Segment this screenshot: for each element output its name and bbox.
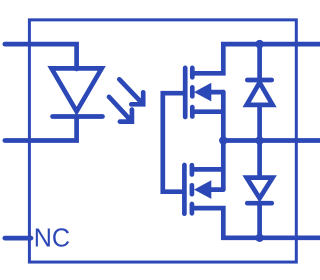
transistor Q2 body plate	[190, 185, 195, 194]
svg-text:NC: NC	[34, 224, 70, 252]
light arrow upper	[119, 79, 143, 104]
Q2 body arrow	[194, 180, 211, 199]
LED D1 triangle	[52, 68, 102, 111]
common source vertical wire	[221, 92, 226, 190]
diode D2 bottom wire	[257, 105, 262, 141]
diode D3 bottom wire	[257, 203, 262, 238]
diode D3 top wire	[257, 141, 262, 178]
Q2 source wire	[193, 167, 224, 172]
diode D3 cathode bar	[247, 201, 271, 206]
Q1 drain wire + top rail to pin 6	[193, 44, 320, 73]
Q2 drain wire + bottom rail to pin 4	[193, 208, 320, 238]
LED D1 cathode bar	[53, 114, 103, 119]
package outline box	[29, 20, 296, 262]
gate link wire	[163, 93, 185, 192]
transistor Q1 gate bar	[183, 68, 188, 117]
diode D3 triangle	[247, 178, 273, 199]
Q1 body arrow	[194, 83, 211, 102]
junction dot diode center	[255, 136, 263, 144]
light arrow lower	[109, 97, 132, 122]
pin 3 wire (NC stub, bottom-left)	[5, 236, 31, 241]
transistor Q1 body plate	[190, 87, 195, 96]
Q2 body wire	[211, 187, 223, 192]
Q1 body wire	[211, 90, 223, 95]
pin 1 wire (anode, top-left)	[5, 44, 77, 69]
junction dot source node	[219, 136, 227, 144]
pin 2 wire (cathode, mid-left)	[5, 117, 77, 141]
center tap wire to pin 5	[223, 138, 320, 143]
diode D2 triangle	[247, 83, 273, 105]
diode D2 cathode bar	[247, 78, 271, 83]
transistor Q1 drain plate	[190, 68, 195, 77]
junction dot bottom rail	[255, 234, 263, 242]
transistor Q2 drain plate	[190, 204, 195, 213]
transistor Q2 gate bar	[182, 165, 187, 214]
diode D2 top wire	[257, 44, 262, 80]
transistor Q2 source plate	[190, 165, 195, 174]
transistor Q1 source plate	[190, 107, 195, 116]
Q1 source wire	[193, 109, 223, 114]
junction dot top rail	[255, 40, 263, 48]
